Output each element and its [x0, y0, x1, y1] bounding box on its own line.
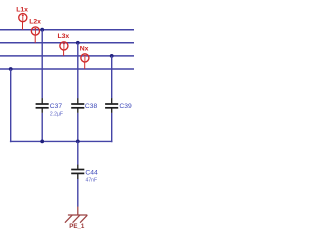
wire C44 to ground — [77, 179, 79, 207]
wire C37 branch upper — [41, 30, 43, 99]
capacitor C38 — [71, 98, 84, 113]
wire tail L2x to L2 — [34, 35, 36, 43]
svg-text:C37: C37 — [50, 103, 63, 110]
node junction N / left branch — [9, 67, 13, 71]
svg-text:C39: C39 — [119, 103, 132, 110]
wire tail Nx to N — [84, 62, 86, 69]
capacitor C37 — [36, 98, 49, 113]
svg-text:C44: C44 — [85, 169, 98, 176]
wire C38 branch upper — [77, 43, 79, 99]
wire C39 branch upper — [111, 56, 113, 99]
wire C44 branch upper — [77, 141, 79, 164]
svg-text:2.2µF: 2.2µF — [50, 112, 63, 118]
svg-text:C38: C38 — [85, 103, 98, 110]
wire L2 bus — [0, 42, 134, 44]
wire C38 branch lower — [77, 113, 79, 141]
wire L3 bus — [0, 55, 134, 57]
node junction L2 / C38 branch — [76, 41, 80, 45]
wire tail L1x to L1 — [22, 22, 24, 30]
svg-text:PE_1: PE_1 — [69, 223, 85, 230]
svg-text:L3x: L3x — [58, 33, 70, 40]
interruption point L3x — [60, 42, 68, 50]
interruption point L1x — [19, 14, 27, 22]
wire C39 branch lower — [111, 113, 113, 142]
node junction rail / C44 — [76, 140, 80, 144]
wire C37 branch lower — [41, 113, 43, 141]
capacitor C44 — [71, 165, 84, 179]
wire L1 bus — [0, 29, 134, 31]
wire tail L3x to L3 — [63, 50, 65, 56]
interruption point Nx — [81, 54, 89, 62]
capacitor C39 — [105, 98, 118, 113]
wire N branch down — [10, 69, 12, 142]
wire N bus — [0, 68, 134, 70]
svg-text:L1x: L1x — [16, 7, 28, 14]
svg-text:Nx: Nx — [80, 46, 89, 53]
svg-text:L2x: L2x — [29, 19, 41, 26]
interruption point L2x — [31, 27, 39, 35]
node junction L1 / C37 branch — [40, 28, 44, 32]
wire bottom rail — [10, 140, 113, 142]
node junction rail / C37 — [40, 140, 44, 144]
svg-text:47nF: 47nF — [86, 177, 98, 183]
node junction L3 / C39 branch — [110, 54, 114, 58]
ground PE_1 — [65, 207, 87, 223]
